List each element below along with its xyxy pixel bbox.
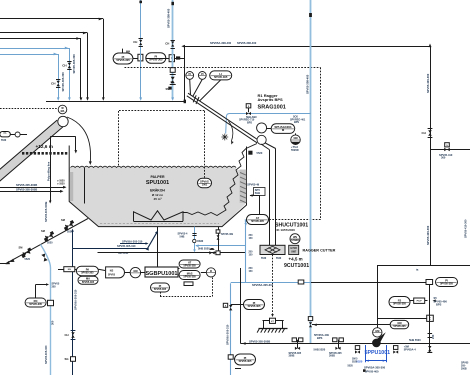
svg-text:305-: 305- [461,366,466,368]
svg-text:SM: SM [41,229,45,233]
svg-text:250: 250 [249,268,254,270]
svg-text:5520: 5520 [348,366,354,368]
svg-text:SM: SM [61,218,65,222]
svg-text:Pulp nilling line: Pulp nilling line [46,161,50,181]
svg-text:BPS: BPS [436,303,442,307]
svg-text:SPV05A-305-310: SPV05A-305-310 [226,324,230,345]
svg-text:CH: CH [133,40,137,44]
svg-text:5PV05-305: 5PV05-305 [393,325,406,328]
svg-text:CH: CH [165,42,169,46]
svg-text:+12,6 m: +12,6 m [36,144,53,149]
svg-text:SPV05-409: SPV05-409 [221,233,234,236]
svg-text:GM: GM [293,136,297,140]
svg-text:Avsprits BPS: Avsprits BPS [258,97,284,102]
svg-text:SPV05-409-300: SPV05-409-300 [426,225,430,245]
svg-text:MM: MM [126,51,130,53]
svg-text:▸ 5520: ▸ 5520 [57,183,66,186]
svg-text:5HB 5520: 5HB 5520 [409,338,421,342]
svg-text:IK 1957/2400: IK 1957/2400 [277,228,296,232]
svg-text:5PV05-305: 5PV05-305 [251,219,264,223]
svg-text:250: 250 [249,252,254,254]
svg-text:PS-P: PS-P [417,301,423,303]
svg-text:SPV05A-308-400: SPV05A-308-400 [210,41,232,45]
svg-text:SPV05-305-300: SPV05-305-300 [44,345,48,364]
svg-text:SPU1001: SPU1001 [146,180,169,186]
svg-text:305: 305 [52,286,57,289]
svg-text:CH: CH [62,64,66,68]
svg-text:300: 300 [441,156,446,160]
svg-text:5PV05-305: 5PV05-305 [183,265,196,268]
svg-text:5PV05A-4: 5PV05A-4 [404,347,417,351]
svg-text:DN40: DN40 [197,240,204,243]
svg-text:5520: 5520 [261,258,267,260]
svg-text:45 m³: 45 m³ [153,197,161,201]
svg-text:5PV05-305: 5PV05-305 [214,75,228,79]
svg-text:5PV05-305: 5PV05-305 [154,288,167,291]
svg-text:5PV05-305: 5PV05-305 [248,304,261,308]
svg-text:5PV05-305: 5PV05-305 [183,276,196,279]
svg-text:5PV05-305: 5PV05-305 [440,282,453,286]
svg-text:GM: GM [375,329,379,333]
svg-text:5HB 5520: 5HB 5520 [198,247,210,251]
svg-text:SPV05A-305-300: SPV05A-305-300 [364,365,386,369]
svg-text:SPV05-305-300: SPV05-305-300 [61,72,65,92]
svg-text:NS: NS [110,269,114,272]
svg-text:300: 300 [51,320,55,325]
svg-text:5PV05-305: 5PV05-305 [116,58,130,62]
svg-text:WN: WN [293,237,297,239]
svg-text:SPV05A-305-310: SPV05A-305-310 [122,239,143,243]
svg-text:SM: SM [19,246,23,250]
svg-text:SPV05-305-310: SPV05-305-310 [117,244,136,248]
svg-text:SPV05-305-300: SPV05-305-300 [72,54,76,74]
svg-text:HYDR: HYDR [291,248,298,250]
svg-text:5520: 5520 [47,242,53,245]
svg-text:SPV05-409-300: SPV05-409-300 [426,73,430,93]
svg-text:5PV05-305: 5PV05-305 [393,302,406,306]
svg-text:SPV05-410-300: SPV05-410-300 [464,219,468,238]
svg-text:SPV05-308-400: SPV05-308-400 [306,74,310,94]
svg-text:5520: 5520 [25,258,31,261]
svg-text:SM 5: SM 5 [352,359,358,361]
svg-text:150: 150 [249,271,254,273]
svg-text:SPV05A-305-310: SPV05A-305-310 [252,283,274,287]
svg-text:SPV05-305-300B: SPV05-305-300B [16,187,37,191]
svg-text:5HB: 5HB [180,235,185,238]
svg-text:9CUT1001: 9CUT1001 [284,263,309,269]
svg-text:CH: CH [65,333,69,337]
svg-text:150: 150 [249,255,254,257]
svg-text:1001: 1001 [202,184,208,187]
svg-text:MA: MA [61,110,65,113]
svg-text:SC: SC [3,133,7,135]
svg-text:5HB: 5HB [255,191,260,195]
svg-text:5HB 5520: 5HB 5520 [314,348,326,352]
svg-text:PI: PI [188,72,191,76]
svg-text:SGBPU1001: SGBPU1001 [145,271,177,277]
svg-text:5PV05-305: 5PV05-305 [82,281,95,284]
svg-text:5520D: 5520D [291,148,299,152]
svg-text:SPV05: SPV05 [461,363,469,365]
svg-text:5PV05-305: 5PV05-305 [81,272,94,275]
svg-text:300B: 300B [289,355,295,358]
svg-text:SPV05-308-400: SPV05-308-400 [166,8,170,28]
svg-text:SRAG1001: SRAG1001 [258,105,286,111]
svg-text:GM: GM [133,269,137,273]
svg-text:5PV05: 5PV05 [108,275,116,277]
svg-text:PI: PI [201,72,204,76]
svg-text:SPV05-305-300B: SPV05-305-300B [44,202,48,222]
svg-text:SPV05A-305-310: SPV05A-305-310 [73,289,77,310]
svg-text:SPV05-308-400: SPV05-308-400 [237,41,257,45]
svg-text:SG 5545: SG 5545 [118,251,129,255]
svg-text:5520: 5520 [257,151,263,155]
svg-text:SPV05-305-300B: SPV05-305-300B [16,183,37,187]
svg-text:STAND: STAND [291,239,299,242]
svg-text:5520: 5520 [352,361,358,363]
svg-text:5PV05-305: 5PV05-305 [29,302,42,306]
svg-text:150: 150 [249,238,254,240]
svg-text:BPS: BPS [317,336,323,340]
svg-text:▸ 5520: ▸ 5520 [57,179,66,182]
svg-text:CH: CH [422,131,426,135]
svg-text:FI: FI [210,269,213,273]
svg-text:5PV05-305: 5PV05-305 [239,359,252,363]
svg-text:300B: 300B [329,355,335,358]
svg-text:SPV05-49: SPV05-49 [247,183,259,187]
svg-text:UNIT: UNIT [291,251,297,253]
svg-text:250: 250 [431,334,435,339]
svg-text:CH: CH [51,82,55,86]
svg-text:5PV05-400: 5PV05-400 [365,370,379,374]
svg-text:5520: 5520 [1,140,7,142]
svg-text:BPS: BPS [247,121,252,124]
svg-text:BPS: BPS [294,121,299,124]
svg-text:PALPER: PALPER [150,175,165,179]
svg-text:SPV05-305-300B: SPV05-305-300B [249,339,270,343]
svg-text:5520: 5520 [276,258,282,260]
svg-text:RAGGER CUTTER: RAGGER CUTTER [303,249,336,253]
svg-text:300B: 300B [461,369,467,371]
svg-text:250: 250 [249,235,254,237]
svg-text:NS: NS [68,269,72,271]
svg-text:+4,5 m: +4,5 m [289,256,303,261]
